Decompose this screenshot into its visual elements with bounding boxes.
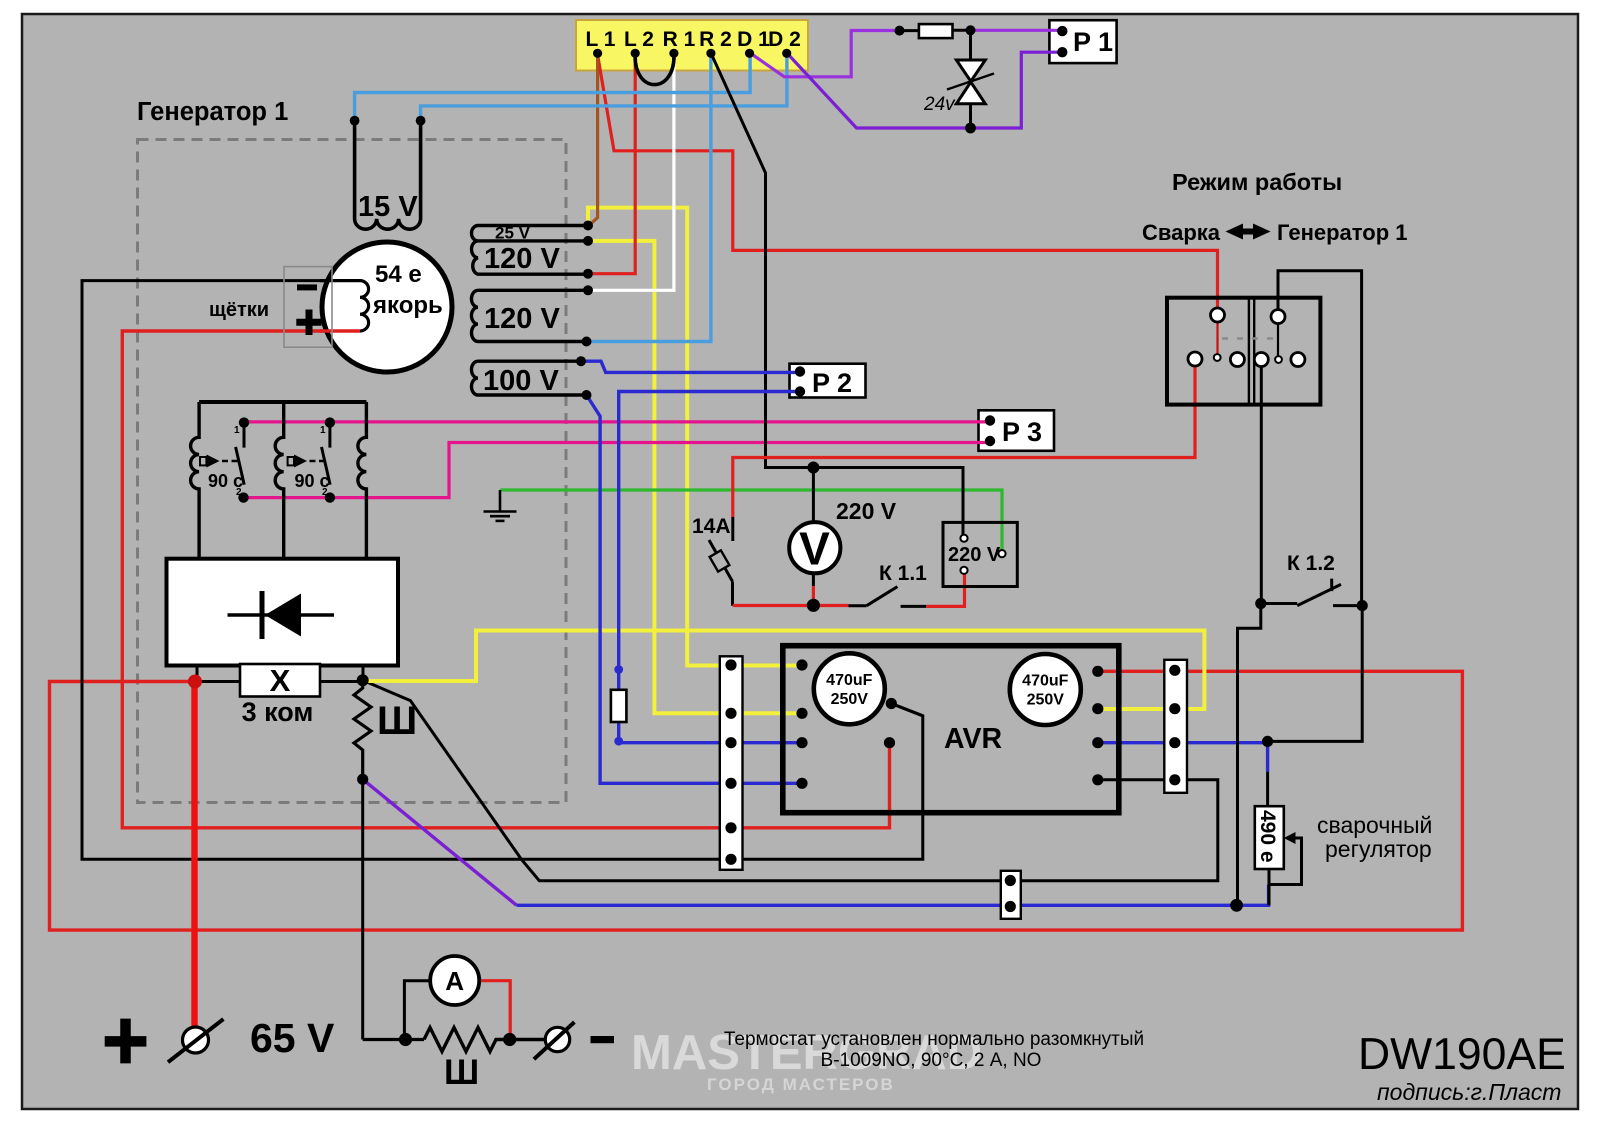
svg-text:L 1: L 1 bbox=[586, 28, 616, 51]
AVR internal black line bbox=[891, 704, 923, 716]
terminal + circle bbox=[168, 1019, 223, 1062]
TVS 24v bidirectional zener bbox=[923, 30, 994, 128]
node shunt left bbox=[399, 1033, 412, 1046]
fuse on navy wire bbox=[611, 665, 627, 745]
wire purple fuse to P1 pin1 bbox=[971, 29, 1063, 32]
svg-text:1: 1 bbox=[320, 425, 326, 436]
svg-text:250V: 250V bbox=[1027, 692, 1065, 709]
node fuse-right bbox=[966, 25, 976, 35]
svg-text:65 V: 65 V bbox=[250, 1015, 335, 1061]
node 15V right bbox=[416, 116, 426, 126]
svg-text:Ш: Ш bbox=[377, 699, 417, 743]
wire red breaker to V junction bbox=[733, 604, 849, 607]
svg-text:регулятор: регулятор bbox=[1325, 836, 1432, 862]
wire purple D1 to fuse bbox=[750, 31, 899, 77]
AVR pins bbox=[796, 659, 1103, 789]
fuse F1 top bbox=[900, 24, 971, 38]
wire black brush- bus to AVR internal bbox=[82, 281, 923, 860]
dashed box Generator 1 bbox=[138, 140, 567, 803]
shunt row wire bbox=[363, 1038, 424, 1041]
relay P3 body bbox=[979, 410, 1055, 451]
wire magenta thermostat1 to P3 bbox=[244, 420, 990, 423]
svg-text:250V: 250V bbox=[831, 691, 869, 708]
wire red K1.1 to 220V socket bbox=[926, 570, 964, 607]
wire green ground line to 220V socket bbox=[500, 490, 1002, 554]
wire black mode switch weld pin drop to K1.2 bbox=[1260, 360, 1263, 604]
top bus bbox=[199, 400, 366, 404]
svg-text:25 V: 25 V bbox=[495, 224, 531, 243]
thermostat 2 bbox=[288, 417, 335, 502]
svg-text:470uF: 470uF bbox=[1022, 673, 1068, 690]
capacitor C1 bbox=[814, 653, 885, 724]
wire red L1 to mode switch bbox=[598, 55, 1218, 315]
node blue bus K1.2 junction bbox=[1230, 899, 1243, 912]
relay P3 bbox=[985, 415, 1042, 447]
wire purple welding shunt diagonal bbox=[363, 779, 517, 905]
resistor Ш vertical bbox=[354, 680, 371, 779]
node 15V left bbox=[350, 116, 360, 126]
plus symbol bbox=[105, 1019, 147, 1064]
relay P2 body bbox=[790, 364, 866, 398]
wire lightblue D1 to 15V left bbox=[355, 53, 750, 121]
wire red thick to + terminal bbox=[191, 682, 197, 1029]
relay P1 body bbox=[1049, 20, 1116, 63]
wire navy 100V bottom to AVR left pin4 bbox=[587, 395, 803, 783]
svg-text:90 с: 90 с bbox=[295, 471, 330, 491]
node V top bbox=[807, 462, 819, 474]
wire magenta thermostat2 to P3 bbox=[244, 443, 991, 498]
wire black 490e top lead bbox=[1266, 772, 1269, 807]
capacitor C2 bbox=[1010, 654, 1081, 725]
coil 100V bbox=[471, 361, 586, 397]
node shunt right bbox=[503, 1033, 516, 1046]
breaker 14A bbox=[692, 515, 733, 606]
svg-text:Термостат установлен нормально: Термостат установлен нормально разомкнут… bbox=[724, 1029, 1144, 1050]
svg-text:сварочный: сварочный bbox=[1317, 812, 1432, 838]
wire red mode switch to 14A branch bbox=[733, 359, 1195, 517]
svg-text:P 2: P 2 bbox=[812, 368, 852, 398]
thermostat 1 bbox=[200, 417, 249, 502]
ground symbol bbox=[484, 490, 517, 521]
svg-text:470uF: 470uF bbox=[826, 672, 872, 689]
svg-text:R 2: R 2 bbox=[699, 28, 732, 51]
svg-text:P 3: P 3 bbox=[1002, 417, 1042, 447]
svg-text:490 е: 490 е bbox=[1256, 810, 1279, 863]
wire navy 100V top to P2 pin1 bbox=[581, 361, 800, 372]
wire black X row bbox=[196, 680, 363, 683]
field coil 3 bbox=[358, 402, 367, 559]
wire black K1.2 left drop to blue bus bbox=[1238, 604, 1261, 906]
wire black Ш to bottom shunt bbox=[361, 779, 364, 1039]
svg-text:D 2: D 2 bbox=[768, 28, 801, 51]
svg-text:AVR: AVR bbox=[944, 723, 1002, 755]
wire purple D2 to P1 pin2 bbox=[787, 52, 1062, 128]
svg-text:К 1.2: К 1.2 bbox=[1287, 552, 1335, 575]
wire lightblue D2 to 15V right bbox=[421, 53, 787, 121]
svg-text:DW190AE: DW190AE bbox=[1358, 1030, 1566, 1079]
terminal - circle bbox=[534, 1022, 575, 1059]
svg-text:Ш: Ш bbox=[444, 1053, 479, 1092]
node Ш bottom bbox=[357, 774, 368, 785]
svg-text:P 1: P 1 bbox=[1073, 27, 1113, 57]
wire navy P2 pin2 through fuse to AVR left pin3 bbox=[619, 392, 802, 743]
svg-text:ГОРОД МАСТЕРОВ: ГОРОД МАСТЕРОВ bbox=[707, 1075, 895, 1094]
field coil 1 bbox=[191, 402, 200, 559]
jumper L2-R1 bbox=[635, 53, 674, 84]
svg-text:120 V: 120 V bbox=[484, 303, 560, 335]
winding terminal dots bbox=[576, 221, 593, 401]
armature winding bbox=[320, 281, 369, 331]
terminal block body bbox=[576, 20, 808, 71]
wire black 490e bottom lead bbox=[1268, 869, 1271, 905]
wire black X-node diagonal to AVR right pin4 bbox=[363, 680, 1218, 880]
svg-text:220 V: 220 V bbox=[836, 498, 897, 524]
wire black mode switch gen pin riser bbox=[1278, 271, 1362, 606]
svg-text:В-1009NO, 90°С, 2 А, NO: В-1009NO, 90°С, 2 А, NO bbox=[821, 1050, 1042, 1071]
wire blue bottom bus to 490e and K1.2 bbox=[517, 885, 1269, 906]
rheostat 490e bbox=[1255, 806, 1302, 884]
svg-text:Генератор 1: Генератор 1 bbox=[137, 98, 288, 126]
wire yellow coil tap to AVR left pin2 bbox=[588, 208, 802, 666]
resistor X box bbox=[240, 663, 320, 698]
voltmeter V bbox=[789, 522, 840, 574]
wire red L2 to coil1 bottom bbox=[589, 53, 636, 273]
node V bottom bbox=[807, 599, 820, 612]
switch K1.2 bbox=[1255, 552, 1368, 611]
svg-text:D 1: D 1 bbox=[737, 28, 770, 51]
terminal block L1..D2 bbox=[586, 28, 801, 51]
brush box bbox=[284, 267, 332, 348]
svg-text:X: X bbox=[270, 663, 291, 698]
node 490e top junction bbox=[1262, 736, 1273, 747]
rectifier box with diode bbox=[167, 559, 399, 666]
resistor Ш shunt bbox=[424, 1028, 546, 1052]
relay P1 bbox=[1057, 26, 1113, 58]
node fuse-left bbox=[895, 26, 905, 36]
svg-text:V: V bbox=[799, 523, 830, 575]
terminal dots L1 L2 R1 R2 D1 D2 bbox=[593, 49, 791, 58]
node X left (red) bbox=[188, 675, 202, 689]
svg-text:120 V: 120 V bbox=[484, 243, 560, 275]
svg-text:Сварка: Сварка bbox=[1142, 220, 1221, 245]
svg-text:Режим работы: Режим работы bbox=[1172, 169, 1342, 195]
ammeter A bbox=[430, 956, 479, 1005]
svg-text:Генератор 1: Генератор 1 bbox=[1277, 220, 1408, 245]
coil 15V bbox=[355, 121, 421, 230]
voltmeter stem bottom bbox=[812, 573, 815, 586]
armature red lead inside bbox=[320, 329, 360, 332]
svg-text:L 2: L 2 bbox=[624, 28, 654, 51]
wire navy AVR right pin3 to 490e junction bbox=[1098, 743, 1268, 772]
coil 25V/120V tapped bbox=[471, 224, 588, 276]
svg-text:100 V: 100 V bbox=[483, 365, 559, 397]
terminal strip bottom bbox=[1001, 871, 1021, 919]
svg-text:220 V: 220 V bbox=[948, 544, 1001, 566]
svg-text:14А: 14А bbox=[692, 515, 731, 538]
svg-text:1: 1 bbox=[234, 425, 240, 436]
terminal strip right bbox=[1164, 660, 1187, 793]
armature circle 54e bbox=[322, 242, 452, 372]
wire yellow coil tap to AVR left pin1 bbox=[588, 241, 802, 713]
svg-text:15 V: 15 V bbox=[358, 191, 418, 223]
svg-text:А: А bbox=[445, 966, 464, 996]
svg-text:щётки: щётки bbox=[209, 299, 269, 321]
coil 120V second bbox=[471, 290, 588, 341]
ammeter leads bbox=[404, 981, 430, 1040]
wire black K1.2 right to 490e top junction bbox=[1268, 606, 1363, 742]
svg-text:54 е: 54 е bbox=[375, 261, 422, 288]
svg-text:подпись:г.Пласт: подпись:г.Пласт bbox=[1377, 1079, 1561, 1105]
wire lightblue R2 to coil2 bottom bbox=[587, 53, 711, 341]
svg-text:90 с: 90 с bbox=[208, 471, 243, 491]
svg-text:R 1: R 1 bbox=[663, 28, 696, 51]
socket 220V bbox=[943, 522, 1017, 586]
svg-text:24v: 24v bbox=[923, 94, 956, 115]
wire red welding loop bbox=[50, 671, 1463, 930]
terminal strip left bbox=[720, 656, 743, 870]
voltmeter stem top bbox=[812, 468, 815, 523]
double arrow bbox=[1226, 224, 1271, 240]
wire yellow X-node to AVR right pin2 bbox=[363, 631, 1205, 710]
node X right bbox=[357, 674, 369, 686]
brush plus bbox=[296, 310, 321, 336]
field coil 2 bbox=[275, 402, 284, 559]
svg-text:якорь: якорь bbox=[372, 292, 443, 319]
wire black R2 to voltmeter top and 220V socket bbox=[711, 53, 963, 538]
svg-text:К 1.1: К 1.1 bbox=[879, 562, 927, 585]
minus symbol bbox=[591, 1036, 615, 1043]
wire brown L1 to coil1 top bbox=[589, 53, 598, 225]
svg-text:3 ком: 3 ком bbox=[242, 697, 314, 727]
relay P2 bbox=[795, 366, 852, 398]
node TVS bottom bbox=[965, 123, 976, 134]
wire white R1 to coil2 top bbox=[589, 53, 674, 290]
switch K1.1 bbox=[849, 562, 928, 606]
mode switch box bbox=[1167, 298, 1320, 405]
rectifier bottom leads bbox=[197, 666, 363, 682]
AVR box bbox=[783, 646, 1119, 813]
brush minus bbox=[297, 284, 317, 290]
wire red brush+ to AVR strip bbox=[122, 331, 889, 828]
